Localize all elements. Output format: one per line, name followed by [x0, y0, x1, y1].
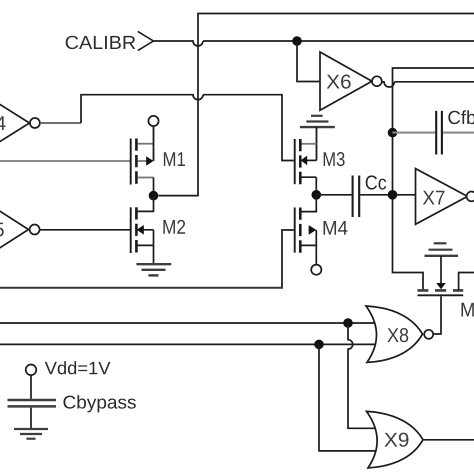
label CALIBR	[66, 36, 136, 49]
label X6	[327, 75, 351, 89]
capacitor Cfb plates	[436, 111, 442, 155]
transistor M2 source stub	[138, 245, 154, 263]
label X8	[387, 328, 408, 342]
transistor M1 channel segments	[135, 139, 138, 184]
wire CALIBR net with hop over x198 vertical	[153, 41, 474, 46]
nor-gate X8 output bubble	[424, 330, 433, 339]
transistor M5 bulk stem with down arrow	[440, 256, 442, 283]
label M1	[164, 152, 185, 166]
label M4	[324, 221, 348, 235]
label X7	[423, 191, 445, 205]
pin terminal above M1	[148, 116, 158, 126]
node M1/M2 junction dot	[149, 191, 159, 201]
transistor M4 gate bar	[294, 208, 296, 253]
transistor M2 bulk stub with arrow	[144, 230, 154, 246]
wire A from left edge to M4 gate	[0, 230, 294, 288]
node Cfb tap dot	[388, 128, 398, 138]
ground below Cbypass	[14, 428, 48, 430]
transistor M1 source stub	[138, 177, 154, 179]
transistor M1 gate bar	[130, 139, 132, 185]
transistor M3 drain stub	[301, 143, 316, 145]
wire X6 output with hop over x392 vertical	[382, 82, 474, 87]
label Cc	[366, 175, 387, 189]
label M3	[324, 152, 345, 166]
label 4 partial	[0, 116, 6, 130]
op-amp X6 inverter triangle	[320, 52, 372, 110]
transistor M1 drain stub	[138, 143, 154, 145]
wire X5 output to M2 gate	[40, 229, 130, 231]
node wire B tap dot	[343, 318, 353, 328]
op-amp X4 inverter triangle (clipped at left edge)	[0, 94, 30, 151]
node CALIBR junction dot	[292, 36, 302, 46]
label Cfb	[448, 110, 474, 124]
power flipped-ground above M5	[434, 242, 447, 244]
transistor M5 channel segments	[418, 289, 464, 292]
input port CALIBR chevron	[138, 31, 154, 50]
transistor M2 drain lead	[138, 196, 154, 212]
transistor M4 source stub	[301, 245, 316, 264]
op-amp X7 inverter triangle	[416, 169, 468, 225]
wire input C to X8	[0, 343, 375, 345]
transistor M4 bulk stub with arrow	[309, 230, 317, 246]
transistor M1 bulk stub with arrow	[138, 160, 147, 162]
inverter X7 output bubble	[467, 192, 474, 202]
or-gate X9 body	[367, 411, 424, 468]
wire input B to X8	[0, 322, 375, 324]
inverter X6 output bubble	[372, 76, 382, 86]
label 5 partial	[0, 223, 4, 237]
capacitor Cbypass plates	[8, 400, 57, 406]
wire Vdd to Cbypass	[30, 375, 32, 399]
wire Cbypass to ground	[30, 408, 32, 428]
wire from B dot down to X9 upper input with hop over wire C	[348, 323, 376, 428]
transistor M3 gate bar	[294, 139, 296, 184]
node X7 input dot	[388, 190, 398, 200]
transistor M2 gate bar	[130, 207, 132, 253]
wire Cfb left (grey)	[393, 132, 436, 134]
wire M5 gate to X8 output bubble	[434, 296, 442, 334]
transistor M2 channel segments	[135, 207, 138, 252]
wire top rail from vertical x198 to right edge, down to M1/M2 node	[159, 14, 474, 196]
pin terminal Vdd	[26, 365, 37, 376]
wire M1 gate input (grey)	[0, 160, 130, 162]
wire M3/M4 node to Cc	[316, 194, 351, 196]
wire flipped-ground stem to M3	[316, 127, 318, 160]
transistor M3 channel segments	[299, 139, 302, 184]
label Vdd=1V	[45, 361, 111, 374]
wire Cc to X7 input	[360, 194, 415, 196]
wire from C dot down to X9 lower input	[319, 344, 375, 451]
inverter X5 output bubble	[30, 225, 40, 235]
wire Cfb right (grey)	[443, 132, 474, 134]
node wire C tap dot	[314, 340, 324, 350]
label Cbypass	[63, 395, 135, 412]
nor-gate X8 body	[366, 306, 423, 362]
op-amp X5 inverter triangle (clipped at left edge)	[0, 201, 29, 259]
wire M1 source to node	[153, 178, 155, 196]
node M3/M4 junction dot	[312, 190, 322, 200]
wire X6 input tap	[297, 41, 320, 82]
wire X9 output	[423, 439, 474, 441]
wire right rail y68 and vertical x392.5 down to M5 drain	[393, 68, 474, 290]
inverter X4 output bubble	[30, 118, 40, 128]
transistor M5 source stub and wire right	[459, 273, 474, 290]
wire X4 output to M3 gate with hop at x198	[40, 122, 81, 124]
transistor M3 bulk stub with arrow	[307, 159, 317, 161]
capacitor Cc plates	[353, 176, 360, 218]
transistor M3 source stub	[301, 177, 316, 195]
ground below M2	[136, 263, 171, 265]
label X9	[384, 433, 408, 447]
pin terminal below M4	[311, 265, 321, 275]
label M2	[163, 220, 185, 234]
wire M1 drain lead to terminal	[153, 126, 155, 161]
label M5 partial	[462, 303, 474, 317]
transistor M4 channel segments	[299, 208, 302, 253]
transistor M5 gate bar	[418, 294, 464, 296]
power flipped-ground above M3	[311, 115, 323, 117]
transistor M4 drain lead	[301, 195, 316, 212]
